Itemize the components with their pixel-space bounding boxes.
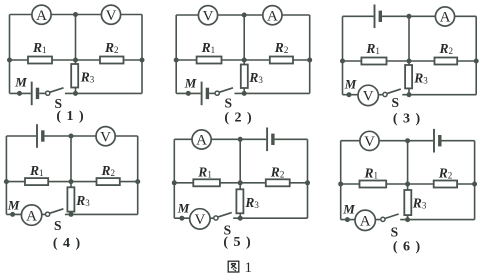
node: circuit 2 middle-right junction xyxy=(307,58,312,63)
label R1 (circuit 3) xyxy=(365,41,380,56)
resistor R1 (circuit 5) xyxy=(193,179,220,186)
svg-text:V: V xyxy=(106,8,117,24)
wire: circuit 2 left rail xyxy=(175,15,177,93)
voltmeter V (circuit 3 bottom) xyxy=(358,85,378,105)
battery (circuit 2 bottom) xyxy=(202,82,208,106)
node: circuit 6 middle-centre junction xyxy=(405,182,410,187)
wire: circuit 6 switch to right corner xyxy=(400,219,474,221)
node: circuit 5 top-centre junction xyxy=(238,137,243,142)
wire: circuit 2 middle rail xyxy=(176,59,310,61)
node: circuit 4 middle-right junction xyxy=(135,179,140,184)
node: circuit 5 bottom-centre junction xyxy=(238,216,243,221)
svg-text:V: V xyxy=(194,212,205,228)
svg-text:R1: R1 xyxy=(364,166,379,181)
node: circuit 3 middle-left junction xyxy=(340,59,345,64)
voltmeter V (circuit 1 top right) xyxy=(101,5,120,24)
voltmeter V (circuit 5 bottom) xyxy=(190,209,210,229)
wire: circuit 6 R3 top lead xyxy=(407,184,409,190)
svg-text:R1: R1 xyxy=(197,164,212,179)
svg-text:V: V xyxy=(364,134,375,150)
node: circuit 2 middle-centre junction xyxy=(242,58,247,63)
label R2 (circuit 5) xyxy=(270,164,285,179)
ammeter A (circuit 4 bottom) xyxy=(21,205,41,225)
svg-text:V: V xyxy=(363,89,374,105)
wire: circuit 2 top rail xyxy=(176,14,310,16)
svg-text:R1: R1 xyxy=(32,40,47,55)
wire: circuit 4 top rail right of battery xyxy=(45,135,138,137)
voltmeter V (circuit 4 top right) xyxy=(96,127,115,146)
wire: circuit 6 middle rail xyxy=(341,183,475,185)
label R2 (circuit 3) xyxy=(439,41,454,56)
node: circuit 3 top-centre junction xyxy=(407,14,412,19)
resistor R2 (circuit 4) xyxy=(97,178,120,185)
label R1 (circuit 6) xyxy=(364,166,379,181)
label R1 (circuit 2) xyxy=(201,40,216,55)
wire: circuit 5 middle rail xyxy=(174,182,307,184)
wire: circuit 3 centre branch upper xyxy=(408,16,410,61)
switch S (circuit 1) xyxy=(46,88,64,95)
wire: circuit 3 right rail xyxy=(475,16,477,94)
label R2 (circuit 4) xyxy=(101,163,116,178)
ammeter A (circuit 6 bottom) xyxy=(355,210,375,230)
svg-text:A: A xyxy=(196,133,207,149)
label R1 (circuit 4) xyxy=(29,163,44,178)
svg-text:V: V xyxy=(100,129,111,145)
svg-text:S: S xyxy=(391,95,399,110)
wire: circuit 6 bottom rail left segment xyxy=(341,219,381,221)
switch S (circuit 3) xyxy=(383,89,401,97)
label R2 (circuit 1) xyxy=(104,40,119,55)
node: circuit 1 middle-centre junction xyxy=(73,58,78,63)
resistor R1 (circuit 1) xyxy=(28,57,52,64)
wire: circuit 1 R3 bottom lead xyxy=(75,88,77,94)
switch S (circuit 2) xyxy=(215,88,233,95)
svg-text:R3: R3 xyxy=(412,196,427,211)
wire: circuit 3 top rail right of battery xyxy=(382,15,476,17)
resistor R2 (circuit 2) xyxy=(270,57,293,64)
wire: circuit 1 R3 top lead xyxy=(75,60,77,64)
node: circuit 5 middle-right junction xyxy=(305,180,310,185)
wire: circuit 5 top rail right of battery xyxy=(275,138,308,140)
wire: circuit 3 middle rail xyxy=(343,60,477,62)
node: circuit 2 bottom-centre junction xyxy=(242,91,247,96)
svg-text:S: S xyxy=(224,96,232,111)
svg-text:S: S xyxy=(391,225,399,240)
svg-text:R2: R2 xyxy=(439,41,454,56)
switch S (circuit 4) xyxy=(46,209,64,216)
wire: circuit 2 centre branch upper xyxy=(243,15,245,60)
svg-text:A: A xyxy=(267,8,278,24)
svg-text:M: M xyxy=(184,76,197,91)
wire: circuit 1 switch to right corner xyxy=(65,92,142,94)
wire: circuit 3 bottom rail left segment xyxy=(343,94,383,96)
resistor R2 (circuit 5) xyxy=(266,179,290,186)
label R1 (circuit 1) xyxy=(32,40,47,55)
wire: circuit 3 left rail xyxy=(342,16,344,94)
resistor R3 (circuit 6) xyxy=(404,190,411,215)
ammeter A (circuit 2 top right) xyxy=(263,6,282,25)
svg-text:R1: R1 xyxy=(29,163,44,178)
wire: circuit 3 R3 bottom lead xyxy=(408,88,410,94)
wire: circuit 1 centre branch upper xyxy=(75,15,77,61)
battery (circuit 3 top) xyxy=(375,5,381,29)
svg-text:( 5 ): ( 5 ) xyxy=(223,235,251,250)
ammeter A (circuit 5 top left) xyxy=(192,130,211,149)
wire: circuit 5 top rail left of battery xyxy=(174,138,266,140)
svg-text:R3: R3 xyxy=(80,70,95,85)
wire: circuit 3 top rail left of battery xyxy=(343,15,374,17)
svg-text:S: S xyxy=(54,218,62,233)
svg-text:R3: R3 xyxy=(413,71,428,86)
wire: circuit 4 top rail left of battery xyxy=(6,135,36,137)
wire: circuit 4 R3 bottom lead xyxy=(70,212,72,215)
wire: circuit 1 battery to switch xyxy=(39,92,45,94)
label R1 (circuit 5) xyxy=(197,164,212,179)
node: circuit 5 middle-left junction xyxy=(172,180,177,185)
node: circuit 2 middle-left junction xyxy=(174,58,179,63)
battery (circuit 4 top) xyxy=(37,124,43,148)
wire: circuit 2 R3 top lead xyxy=(243,60,245,65)
resistor R3 (circuit 1) xyxy=(71,64,78,88)
svg-text:R2: R2 xyxy=(274,40,289,55)
resistor R1 (circuit 2) xyxy=(197,57,222,64)
svg-text:R2: R2 xyxy=(270,164,285,179)
svg-text:M: M xyxy=(344,77,357,92)
svg-text:R1: R1 xyxy=(201,40,216,55)
node: circuit 3 middle-right junction xyxy=(474,59,479,64)
node: circuit 4 middle-centre junction xyxy=(69,179,74,184)
wire: circuit 5 bottom rail left segment xyxy=(174,217,214,219)
battery (circuit 5 top) xyxy=(267,128,273,152)
label R3 (circuit 5) xyxy=(244,195,259,210)
resistor R2 (circuit 3) xyxy=(435,58,458,65)
wire: circuit 5 switch to right corner xyxy=(233,217,307,219)
wire: circuit 2 right rail xyxy=(309,15,311,93)
svg-text:M: M xyxy=(342,202,355,217)
caption: 图 (figure) glyph xyxy=(228,261,239,272)
svg-text:( 3 ): ( 3 ) xyxy=(393,112,421,127)
label R3 (circuit 3) xyxy=(413,71,428,86)
wire: circuit 4 R3 top lead xyxy=(70,182,72,188)
resistor R3 (circuit 3) xyxy=(405,65,412,88)
resistor R3 (circuit 5) xyxy=(236,189,243,213)
svg-text:R3: R3 xyxy=(244,195,259,210)
battery (circuit 6 top) xyxy=(434,129,440,153)
node: circuit 5 bottom-left junction xyxy=(179,216,184,221)
wire: circuit 6 top rail right of battery xyxy=(442,140,475,142)
wire: circuit 3 R3 top lead xyxy=(408,61,410,65)
node: circuit 4 bottom-left junction xyxy=(10,212,15,217)
svg-text:A: A xyxy=(360,214,371,230)
wire: circuit 5 left rail xyxy=(173,139,175,218)
label R3 (circuit 2) xyxy=(248,70,263,85)
wire: circuit 2 switch to right corner xyxy=(235,92,310,94)
wire: circuit 4 switch to right corner xyxy=(65,213,138,215)
svg-text:( 6 ): ( 6 ) xyxy=(393,240,421,255)
node: circuit 6 bottom-left junction xyxy=(345,217,350,222)
wire: circuit 4 bottom rail left segment xyxy=(6,213,45,215)
resistor R1 (circuit 6) xyxy=(360,181,387,188)
svg-text:( 2 ): ( 2 ) xyxy=(224,111,252,126)
wire: circuit 5 R3 bottom lead xyxy=(239,213,241,218)
wire: circuit 1 right rail xyxy=(141,15,143,94)
node: circuit 4 top-centre junction xyxy=(69,134,74,139)
voltmeter V (circuit 2 top left) xyxy=(198,6,217,25)
wire: circuit 5 R3 top lead xyxy=(239,183,241,190)
svg-text:A: A xyxy=(26,208,37,224)
svg-text:( 4 ): ( 4 ) xyxy=(53,236,81,251)
node: circuit 5 middle-centre junction xyxy=(238,180,243,185)
wire: circuit 3 switch to right corner xyxy=(402,94,476,96)
wire: circuit 2 R3 bottom lead xyxy=(243,88,245,93)
label R3 (circuit 1) xyxy=(80,70,95,85)
svg-text:R3: R3 xyxy=(75,193,90,208)
resistor R2 (circuit 6) xyxy=(434,181,457,188)
wire: circuit 6 left rail xyxy=(340,141,342,220)
svg-text:1: 1 xyxy=(245,260,253,276)
svg-text:R2: R2 xyxy=(101,163,116,178)
svg-text:R2: R2 xyxy=(104,40,119,55)
svg-text:M: M xyxy=(177,201,190,216)
node: circuit 4 middle-left junction xyxy=(4,179,9,184)
wire: circuit 1 middle rail xyxy=(10,59,143,61)
svg-text:( 1 ): ( 1 ) xyxy=(56,109,84,124)
node: circuit 2 top-centre junction xyxy=(242,13,247,18)
switch S (circuit 6) xyxy=(381,214,399,221)
wire: circuit 1 bottom rail left of battery xyxy=(10,92,31,94)
voltmeter V (circuit 6 top left) xyxy=(360,131,379,150)
node: circuit 3 bottom-left junction xyxy=(347,92,352,97)
wire: circuit 4 centre branch upper xyxy=(70,136,72,182)
node: circuit 4 bottom-centre junction xyxy=(69,212,74,217)
label R3 (circuit 6) xyxy=(412,196,427,211)
resistor R1 (circuit 4) xyxy=(25,178,48,185)
label R3 (circuit 4) xyxy=(75,193,90,208)
wire: circuit 4 middle rail xyxy=(6,181,137,183)
svg-text:R1: R1 xyxy=(365,41,380,56)
wire: circuit 6 right rail xyxy=(474,141,476,220)
wire: circuit 6 top rail left of battery xyxy=(341,140,433,142)
wire: circuit 1 top rail xyxy=(10,14,143,16)
wire: circuit 4 left rail xyxy=(5,136,7,214)
resistor R3 (circuit 2) xyxy=(241,65,248,89)
node: circuit 6 bottom-centre junction xyxy=(405,217,410,222)
node: circuit 6 top-centre junction xyxy=(405,138,410,143)
switch S (circuit 5) xyxy=(214,213,232,220)
wire: circuit 2 bottom rail left of battery xyxy=(176,92,201,94)
wire: circuit 5 centre branch upper xyxy=(239,139,241,183)
wire: circuit 2 battery to switch xyxy=(209,92,215,94)
node: circuit 1 top-centre junction xyxy=(73,12,78,17)
node: circuit 3 bottom-centre junction xyxy=(407,92,412,97)
node: circuit 6 middle-right junction xyxy=(472,182,477,187)
node: circuit 1 bottom-left junction xyxy=(17,91,22,96)
svg-text:V: V xyxy=(203,8,214,24)
svg-text:A: A xyxy=(440,10,451,26)
wire: circuit 4 right rail xyxy=(137,136,139,214)
resistor R1 (circuit 3) xyxy=(361,58,386,65)
resistor R3 (circuit 4) xyxy=(67,187,74,211)
battery (circuit 1 bottom) xyxy=(32,82,38,106)
svg-text:M: M xyxy=(14,75,27,90)
resistor R2 (circuit 1) xyxy=(100,57,124,64)
node: circuit 3 middle-centre junction xyxy=(407,59,412,64)
ammeter A (circuit 1 top left) xyxy=(32,5,51,24)
svg-text:R2: R2 xyxy=(438,166,453,181)
ammeter A (circuit 3 top right) xyxy=(435,7,454,26)
node: circuit 2 bottom-left junction xyxy=(186,91,191,96)
node: circuit 1 bottom-centre junction xyxy=(73,91,78,96)
svg-text:A: A xyxy=(36,8,47,24)
node: circuit 1 middle-right junction xyxy=(140,58,145,63)
node: circuit 1 middle-left junction xyxy=(7,58,12,63)
wire: circuit 1 left rail xyxy=(9,15,11,94)
wire: circuit 6 centre branch upper xyxy=(407,141,409,184)
svg-text:R3: R3 xyxy=(248,70,263,85)
label R2 (circuit 2) xyxy=(274,40,289,55)
node: circuit 6 middle-left junction xyxy=(338,182,343,187)
wire: circuit 6 R3 bottom lead xyxy=(407,215,409,220)
svg-text:M: M xyxy=(7,198,20,213)
wire: circuit 5 right rail xyxy=(307,139,309,218)
label R2 (circuit 6) xyxy=(438,166,453,181)
